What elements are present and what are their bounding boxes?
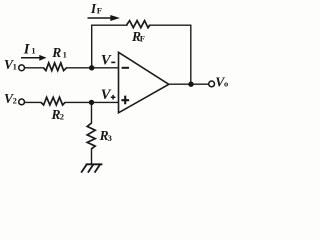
- op-amp U1 triangle: [119, 52, 169, 113]
- op-amp plus port marker: [121, 96, 129, 105]
- wire feedback top left segment: [92, 24, 127, 26]
- junction dot output node: [188, 82, 193, 87]
- output terminal circle Vo: [209, 81, 215, 87]
- wire feedback right vertical down to output: [190, 25, 192, 84]
- svg-text:V: V: [101, 53, 112, 69]
- svg-text:3: 3: [108, 133, 112, 143]
- resistor R3 zigzag: [87, 123, 95, 149]
- input terminal circle V2: [19, 99, 25, 105]
- wire feedback top right segment: [149, 24, 191, 26]
- wire V2 to R2: [25, 101, 41, 103]
- wire feedback left vertical (node V-): [91, 25, 93, 68]
- current arrow I1: [21, 55, 47, 61]
- junction dot node V-: [89, 65, 94, 70]
- svg-text:V: V: [101, 87, 112, 103]
- junction dot node V+: [89, 100, 94, 105]
- resistor R1 zigzag: [44, 63, 67, 71]
- wire R1 to op-amp inverting input: [67, 67, 119, 69]
- wire op-amp output to terminal Vo: [169, 83, 209, 85]
- current arrow IF: [88, 15, 121, 21]
- ground symbol: [81, 164, 102, 172]
- svg-text:2: 2: [13, 96, 17, 106]
- svg-text:1: 1: [31, 46, 35, 56]
- wire node V+ down to R3: [91, 102, 93, 123]
- input terminal circle V1: [19, 65, 25, 71]
- svg-text:1: 1: [13, 61, 17, 71]
- wire R2 to op-amp non-inverting input: [65, 101, 118, 103]
- svg-text:o: o: [224, 79, 228, 89]
- svg-text:2: 2: [60, 112, 64, 122]
- svg-text:F: F: [97, 6, 102, 16]
- resistor R2 zigzag: [41, 97, 65, 105]
- wire V1 to R1: [25, 67, 44, 69]
- svg-text:R: R: [51, 45, 61, 60]
- svg-text:1: 1: [63, 50, 67, 60]
- svg-text:F: F: [140, 34, 145, 44]
- op-amp minus port marker: [122, 67, 129, 69]
- wire R3 to ground: [91, 149, 93, 164]
- resistor RF zigzag: [126, 21, 149, 28]
